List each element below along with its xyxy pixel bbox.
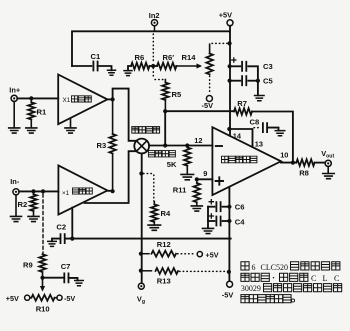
svg-text:R12: R12 bbox=[157, 240, 171, 249]
svg-text:C: C bbox=[311, 274, 317, 283]
svg-text:-5V: -5V bbox=[222, 291, 234, 300]
svg-text:R11: R11 bbox=[173, 186, 187, 195]
svg-text:X1: X1 bbox=[63, 97, 71, 104]
svg-text:14: 14 bbox=[233, 131, 242, 140]
svg-text:+5V: +5V bbox=[6, 294, 19, 303]
svg-text:+5V: +5V bbox=[219, 11, 232, 20]
svg-text:R6′: R6′ bbox=[163, 53, 175, 62]
svg-text:C3: C3 bbox=[263, 62, 273, 71]
svg-text:×1: ×1 bbox=[62, 190, 70, 197]
svg-text:5K: 5K bbox=[167, 160, 177, 169]
svg-text:R3: R3 bbox=[97, 141, 107, 150]
svg-text:C2: C2 bbox=[56, 223, 66, 232]
svg-text:R1: R1 bbox=[37, 108, 47, 117]
svg-text:-5V: -5V bbox=[64, 294, 75, 303]
svg-text:R4: R4 bbox=[161, 209, 171, 218]
svg-text:9: 9 bbox=[203, 169, 207, 178]
svg-text:R8: R8 bbox=[299, 169, 309, 178]
svg-text:R13: R13 bbox=[157, 277, 171, 286]
svg-text:CLC520: CLC520 bbox=[261, 263, 289, 272]
svg-text:L: L bbox=[323, 274, 328, 283]
svg-text:R7: R7 bbox=[237, 99, 247, 108]
svg-text:10: 10 bbox=[280, 151, 288, 160]
svg-text:C7: C7 bbox=[61, 262, 71, 271]
svg-text:R14: R14 bbox=[182, 53, 197, 62]
svg-text:In2: In2 bbox=[149, 11, 160, 20]
svg-text:R2: R2 bbox=[18, 200, 28, 209]
svg-text:+5V: +5V bbox=[206, 250, 219, 259]
svg-text:R9: R9 bbox=[23, 261, 33, 270]
svg-text:C8: C8 bbox=[250, 118, 260, 127]
svg-text:30029: 30029 bbox=[241, 284, 261, 293]
svg-text:R10: R10 bbox=[36, 305, 50, 314]
svg-text:C5: C5 bbox=[263, 76, 273, 85]
svg-text:·: · bbox=[272, 273, 275, 283]
svg-text:C6: C6 bbox=[235, 203, 245, 212]
svg-text:-5V: -5V bbox=[202, 101, 214, 110]
svg-text:C1: C1 bbox=[91, 52, 101, 61]
svg-text:13: 13 bbox=[255, 140, 263, 149]
svg-text:C: C bbox=[334, 274, 340, 283]
svg-text:Vg: Vg bbox=[137, 295, 145, 306]
svg-text:In-: In- bbox=[10, 177, 20, 186]
svg-text:12: 12 bbox=[194, 136, 202, 145]
svg-text:6: 6 bbox=[252, 263, 256, 272]
svg-text:R6: R6 bbox=[135, 53, 145, 62]
svg-text:R5: R5 bbox=[172, 90, 182, 99]
svg-text:Vout: Vout bbox=[321, 149, 334, 160]
svg-text:C4: C4 bbox=[235, 217, 245, 226]
svg-text:In+: In+ bbox=[9, 86, 21, 95]
